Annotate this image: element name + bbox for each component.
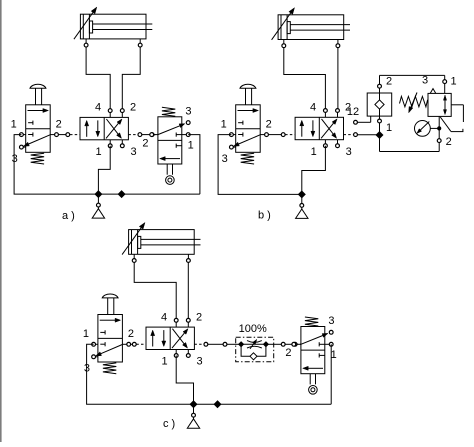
svg-text:2: 2 bbox=[285, 347, 291, 359]
cylinder 3A (circuit c) (double-acting, adjustable) bbox=[129, 230, 201, 261]
valve 3S2 (circuit c) blocked port (bottom box) bbox=[319, 353, 325, 357]
wire valve 3V port 1 to supply rail bbox=[176, 356, 193, 405]
wire valve 3S1 port 1 to supply rail bbox=[87, 344, 194, 404]
valve 3V (circuit c) port labels bbox=[161, 311, 203, 367]
svg-text:2: 2 bbox=[266, 118, 272, 130]
cylinder 1A (circuit a) port circles bbox=[84, 43, 142, 47]
sequence valve 2Z dial connection line bbox=[430, 127, 439, 129]
svg-text:4: 4 bbox=[161, 311, 167, 323]
svg-text:1: 1 bbox=[451, 75, 457, 87]
valve 3S1 (circuit c) port circles 1,2,3 bbox=[92, 342, 131, 358]
throttle valve 3Z restriction arcs bbox=[247, 341, 262, 348]
supply rail circuit a bbox=[98, 193, 199, 195]
svg-text:1: 1 bbox=[83, 328, 89, 340]
air supply c symbol bbox=[187, 404, 199, 428]
valve 1S2 (circuit a) port stubs bbox=[154, 134, 186, 136]
sequence valve 2Z pilot check section bbox=[367, 93, 392, 116]
svg-text:2: 2 bbox=[130, 102, 136, 114]
valve 1V (circuit a) parallel flow arrows (left box) bbox=[85, 120, 100, 136]
svg-text:1: 1 bbox=[188, 139, 194, 151]
valve 3S1 (circuit c) body (3/2 push-button valve) bbox=[98, 315, 123, 363]
svg-text:a ): a ) bbox=[62, 210, 75, 222]
valve 2S (circuit b) body (3/2 push-button valve) bbox=[236, 105, 261, 153]
wire cylinder-c left port to valve 3V port 4 bbox=[134, 263, 176, 321]
air supply b symbol bbox=[296, 194, 308, 218]
air supply b junction bbox=[299, 191, 306, 198]
valve 3S2 (circuit c) port stubs bbox=[297, 343, 329, 345]
valve 2S (circuit b) port circles 1,2,3 bbox=[230, 133, 269, 149]
throttle valve 3Z bypass with check valve bbox=[241, 344, 266, 360]
cylinder 1A (circuit a) (double-acting, adjustable) bbox=[80, 14, 152, 45]
svg-text:2: 2 bbox=[128, 328, 134, 340]
svg-text:2: 2 bbox=[446, 136, 452, 148]
valve 1S1 (circuit a) blocked port (top box) bbox=[28, 121, 33, 125]
valve 3V (circuit c) body (4/2 impulse valve) bbox=[146, 327, 194, 349]
sequence valve 2Z 3/2 section flow arrows bbox=[443, 95, 446, 114]
valve 1S2 (circuit a) blocked port (bottom box) bbox=[176, 144, 182, 148]
svg-text:4: 4 bbox=[310, 102, 316, 114]
svg-text:1: 1 bbox=[311, 146, 317, 158]
pilot line valve 3S1 port 2 to valve 3V left pilot bbox=[131, 342, 147, 346]
valve 1V (circuit a) body (4/2 impulse valve) bbox=[80, 117, 128, 139]
sequence valve 2Z junction dot bbox=[437, 126, 441, 130]
valve 3S2 (circuit c) blocked port 1 (top box) bbox=[319, 342, 325, 346]
pilot line valve 1V right pilot to valve 1S2 port 2 bbox=[128, 133, 158, 137]
valve 2S (circuit b) port labels bbox=[221, 118, 272, 165]
svg-text:3: 3 bbox=[222, 153, 228, 165]
valve 1S1 (circuit a) port circles 1,2,3 bbox=[20, 133, 59, 149]
wire cylinder-a right port to valve 1V port 2 bbox=[122, 47, 140, 111]
valve 1S1 (circuit a) port labels bbox=[11, 118, 62, 165]
svg-text:2: 2 bbox=[196, 311, 202, 323]
valve 1S2 (circuit a) blocked port 1 (top box) bbox=[176, 133, 182, 137]
sequence valve 2Z adjustment dial bbox=[415, 120, 431, 136]
valve 1S1 (circuit a) mushroom actuator bbox=[30, 84, 46, 105]
supply rail circuit c bbox=[194, 403, 332, 405]
valve 1S1 (circuit a) port stubs bbox=[21, 135, 54, 148]
valve 3S1 (circuit c) mushroom actuator bbox=[102, 294, 118, 315]
wire cylinder-c right port to valve 3V port 2 bbox=[187, 263, 189, 321]
wire cylinder-b left port to valve 2V port 4 bbox=[284, 48, 326, 111]
valve 1S2 (circuit a) flow path 2-3 (top box) bbox=[158, 126, 180, 135]
wire valve 2V port 1 to supply rail bbox=[302, 146, 326, 195]
valve 3S1 (circuit c) port labels bbox=[83, 328, 134, 375]
svg-text:2: 2 bbox=[142, 137, 148, 149]
svg-text:1: 1 bbox=[221, 118, 227, 130]
valve 3V (circuit c) parallel flow arrows (left box) bbox=[151, 330, 166, 346]
throttle valve 3Z adjustment arrow bbox=[250, 344, 254, 349]
svg-text:3: 3 bbox=[422, 75, 428, 87]
svg-text:2: 2 bbox=[56, 118, 62, 130]
sequence valve 2Z drain linkage bbox=[440, 105, 463, 132]
valve 2S (circuit b) return spring bbox=[241, 153, 254, 164]
valve 1S2 (circuit a) flow arrow (bottom box) bbox=[165, 158, 180, 160]
throttle valve 3Z through line bbox=[241, 343, 266, 345]
valve 2V (circuit b) port circles 4,2,1,3 bbox=[324, 109, 340, 148]
valve 1S1 (circuit a) flow path 1-2 (top box) bbox=[28, 110, 43, 112]
sequence valve 2Z pilot port 12 line bbox=[354, 116, 371, 124]
svg-text:3: 3 bbox=[328, 315, 334, 327]
valve 2S (circuit b) mushroom actuator bbox=[240, 84, 256, 105]
cylinder 3A (circuit c) port circles bbox=[132, 259, 190, 263]
cylinder 2A (circuit b) port circles bbox=[282, 44, 340, 48]
valve 1S2 (circuit a) body (3/2 roller valve) bbox=[158, 117, 182, 164]
valve 3V (circuit c) port circles 4,2,1,3 bbox=[174, 318, 190, 357]
valve 3S1 (circuit c) flow path 1-2 (top box) bbox=[100, 319, 115, 321]
valve 1S2 (circuit a) spring bbox=[162, 107, 175, 116]
valve 3S1 (circuit c) port stubs bbox=[94, 344, 127, 357]
valve 3V (circuit c) port stubs bbox=[176, 320, 188, 355]
svg-text:12: 12 bbox=[347, 106, 359, 118]
wire valve 1V port 1 to supply rail bbox=[98, 146, 110, 194]
svg-text:3: 3 bbox=[197, 356, 203, 368]
svg-text:1: 1 bbox=[96, 146, 102, 158]
valve 3S1 (circuit c) blocked port (top box) bbox=[100, 330, 105, 334]
svg-text:3: 3 bbox=[185, 105, 191, 117]
svg-text:4: 4 bbox=[95, 102, 101, 114]
svg-text:1: 1 bbox=[386, 122, 392, 134]
pilot line valve 2S port 2 to valve 2V left pilot bbox=[268, 133, 295, 137]
throttle valve 3Z junctions bbox=[239, 342, 269, 347]
valve 1V (circuit a) port stubs bbox=[110, 111, 122, 146]
wire cylinder-b right port to valve 2V port 2 bbox=[337, 48, 339, 111]
throttle check valve 3Z frame bbox=[236, 337, 274, 361]
valve 2V (circuit b) parallel flow arrows (left box) bbox=[300, 120, 315, 136]
valve 3S2 (circuit c) flow arrow (bottom box) bbox=[308, 367, 323, 369]
wire valve 2S port 1 to supply rail bbox=[218, 135, 302, 195]
air supply a junction bbox=[95, 191, 102, 198]
svg-text:3: 3 bbox=[12, 153, 18, 165]
cylinder 3A (circuit c) adjustability arrow bbox=[122, 228, 141, 255]
sequence valve 2Z port 1 drop line bbox=[379, 116, 381, 151]
valve 2V (circuit b) crossed flow arrows (right box) bbox=[321, 119, 337, 138]
valve 3S2 (circuit c) roller actuator bbox=[309, 374, 318, 394]
pilot line valve 3V right pilot to throttle valve bbox=[194, 342, 239, 346]
svg-text:3: 3 bbox=[131, 146, 137, 158]
cylinder 2A (circuit b) adjustability arrow bbox=[272, 13, 291, 40]
sequence valve 2Z port circles bbox=[378, 80, 447, 143]
line throttle valve 3Z to valve 3S2 port 2 bbox=[267, 342, 301, 346]
svg-text:b ): b ) bbox=[258, 210, 271, 222]
wire valve 3S2 port 1 to supply rail bbox=[330, 344, 332, 404]
pilot line valve 1S1 port 2 to valve 1V left pilot bbox=[58, 133, 80, 137]
valve 1S1 (circuit a) blocked port (bottom box) bbox=[28, 132, 33, 136]
svg-text:3: 3 bbox=[346, 146, 352, 158]
cylinder 2A (circuit b) (double-acting, adjustable) bbox=[278, 15, 350, 46]
valve 3S2 (circuit c) spring bbox=[305, 317, 318, 326]
valve 1S1 (circuit a) exhaust path 2-3 (bottom box) bbox=[29, 135, 50, 144]
valve 1S1 (circuit a) return spring bbox=[31, 153, 44, 164]
svg-text:1: 1 bbox=[162, 356, 168, 368]
valve 1S2 (circuit a) port circles 2,1,3 bbox=[150, 121, 190, 137]
sequence valve 2Z bottom line bbox=[380, 151, 440, 153]
valve 2S (circuit b) flow path 1-2 (top box) bbox=[238, 110, 253, 112]
junction on rail circuit c bbox=[214, 401, 221, 408]
valve 3S2 (circuit c) flow path 2-3 (top box) bbox=[301, 336, 323, 345]
junction on rail circuit a bbox=[118, 191, 125, 198]
valve 2V (circuit b) port stubs bbox=[325, 111, 337, 146]
valve 1V (circuit a) crossed flow arrows (right box) bbox=[106, 119, 122, 138]
sequence valve 2Z junction diamond bbox=[376, 132, 383, 139]
valve 3S2 (circuit c) body (3/2 roller valve) bbox=[301, 327, 325, 374]
valve 3S2 (circuit c) port labels bbox=[285, 315, 336, 361]
scanned page left edge bbox=[0, 0, 2, 442]
sequence valve 2Z 3/2 section body bbox=[428, 89, 451, 117]
valve 1S1 (circuit a) body (3/2 push-button valve) bbox=[26, 105, 51, 153]
svg-text:1: 1 bbox=[11, 118, 17, 130]
wire cylinder-a left port to valve 1V port 4 bbox=[86, 47, 110, 111]
sequence valve 2Z adjustable spring bbox=[400, 96, 428, 106]
svg-text:100%: 100% bbox=[239, 323, 267, 335]
valve 2S (circuit b) blocked port (bottom box) bbox=[238, 132, 243, 136]
valve 1S2 (circuit a) port labels bbox=[142, 105, 193, 151]
valve 3S2 (circuit c) port circles 2,1,3 bbox=[293, 330, 333, 346]
valve 3S1 (circuit c) blocked port (bottom box) bbox=[100, 342, 105, 346]
valve 2S (circuit b) port stubs bbox=[231, 135, 264, 148]
wire valve 1S2 port 1 to supply rail bbox=[188, 135, 200, 195]
valve 2V (circuit b) port labels bbox=[310, 102, 352, 158]
air supply a symbol bbox=[92, 194, 104, 218]
air supply c junction bbox=[190, 401, 197, 408]
pilot line valve 2V right pilot to sequence valve 2Z bbox=[344, 133, 380, 137]
valve 1S2 (circuit a) roller actuator bbox=[166, 164, 175, 184]
valve 2S (circuit b) blocked port (top box) bbox=[238, 121, 243, 125]
svg-text:c ): c ) bbox=[163, 418, 175, 430]
sequence valve 2Z right riser to port 2 bbox=[438, 117, 440, 152]
valve 2V (circuit b) body (4/2 impulse valve) bbox=[295, 117, 343, 139]
wire valve 1S1 port 1 to supply rail bbox=[14, 135, 98, 195]
sequence valve 2Z spring arrow bbox=[411, 93, 417, 108]
cylinder 1A (circuit a) adjustability arrow bbox=[74, 12, 93, 39]
valve 1V (circuit a) port circles 4,2,1,3 bbox=[108, 109, 124, 148]
valve 3V (circuit c) crossed flow arrows (right box) bbox=[172, 329, 188, 348]
valve 3S1 (circuit c) exhaust path 2-3 (bottom box) bbox=[101, 345, 123, 354]
sequence valve 2Z top connection line (2 to 1) bbox=[380, 75, 445, 93]
valve 2S (circuit b) exhaust path 2-3 (bottom box) bbox=[239, 135, 261, 144]
sequence valve 2Z port labels bbox=[386, 75, 457, 148]
valve 1V (circuit a) port labels bbox=[95, 102, 137, 158]
svg-text:2: 2 bbox=[386, 75, 392, 87]
valve 3S1 (circuit c) return spring bbox=[103, 363, 116, 374]
